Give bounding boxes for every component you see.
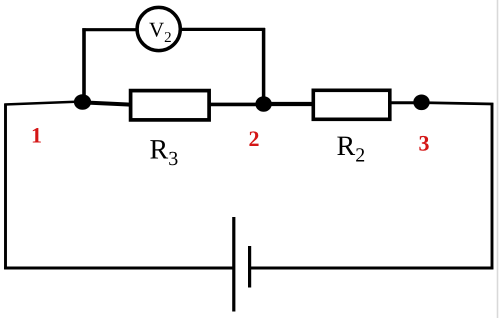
wire node 1 up to voltmeter loop	[82, 28, 86, 101]
wire left-top (node 1 to left corner)	[5, 102, 83, 105]
svg-text:3: 3	[419, 131, 430, 156]
resistor R3	[131, 91, 210, 120]
battery short plate	[248, 246, 251, 288]
node 1 junction dot	[74, 94, 91, 109]
scan artifact line	[497, 0, 499, 318]
wire top-left to voltmeter	[82, 28, 139, 31]
wire bottom-left	[4, 267, 234, 270]
battery long plate	[232, 217, 235, 312]
wire R2 to node 3	[389, 101, 423, 104]
wire right vertical	[491, 103, 494, 269]
wire left vertical	[4, 104, 7, 270]
node 3 junction dot	[413, 95, 429, 111]
wire node 3 to right corner	[422, 103, 494, 104]
svg-text:1: 1	[31, 123, 42, 148]
wire node 1 to R3	[80, 102, 130, 104]
svg-text:2: 2	[249, 126, 260, 151]
resistor R2	[313, 90, 390, 119]
voltmeter V2	[137, 7, 180, 50]
wire voltmeter to top-right corner	[180, 28, 265, 31]
node 2 junction dot	[255, 96, 271, 112]
svg-text:R2: R2	[337, 131, 366, 167]
wire node 2 to R2	[262, 102, 314, 106]
wire R3 to node 2	[209, 103, 264, 107]
svg-text:R3: R3	[150, 135, 179, 171]
wire top-right down to node 2	[262, 28, 266, 103]
wire bottom-right	[250, 267, 494, 270]
